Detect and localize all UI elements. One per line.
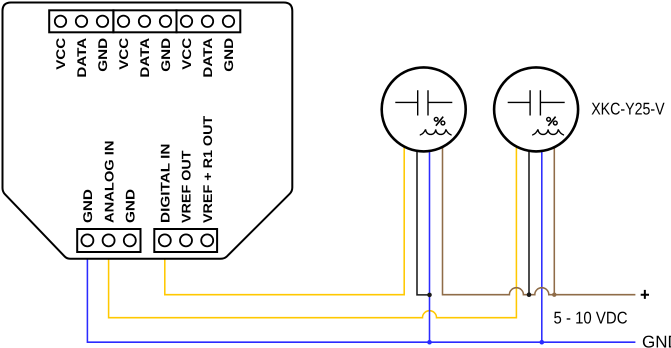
sensor S1 liquid level wave xyxy=(420,129,451,135)
pin 2 DATA xyxy=(76,16,87,27)
connector J1 group 1 box xyxy=(49,10,113,32)
svg-text:GND: GND xyxy=(642,332,671,348)
pin 1 VCC xyxy=(55,16,66,27)
label + (supply plus terminal) xyxy=(641,290,649,299)
sensor S2 liquid level wave xyxy=(533,129,564,135)
svg-text:VCC: VCC xyxy=(54,38,68,70)
module U1 body outline xyxy=(3,3,293,259)
wire: right sensor black mode lead down to + bus xyxy=(528,120,530,295)
svg-text:VCC: VCC xyxy=(117,38,131,70)
pin VREF + R1 OUT (J3-3) xyxy=(201,234,213,246)
sensor S2 (right XKC-Y25-V) body circle xyxy=(494,67,578,151)
svg-text:ANALOG IN: ANALOG IN xyxy=(102,141,116,224)
sensor S1 (left XKC-Y25-V) body circle xyxy=(382,67,466,151)
svg-text:DIGITAL IN: DIGITAL IN xyxy=(159,144,173,224)
pin ANALOG IN (J2-2) xyxy=(103,234,115,246)
junction: left blue wire on GND bus xyxy=(427,340,432,345)
svg-text:VCC: VCC xyxy=(180,38,194,70)
pin VREF OUT (J3-2) xyxy=(180,234,192,246)
wire: brown + supply bus from left sensor VCC lead (hops over yellow and blue wires) xyxy=(443,120,636,295)
svg-text:5 - 10 VDC: 5 - 10 VDC xyxy=(554,309,628,328)
pin 3 GND xyxy=(97,16,108,27)
svg-text:DATA: DATA xyxy=(138,38,152,78)
svg-text:DATA: DATA xyxy=(201,38,215,78)
svg-text:GND: GND xyxy=(222,38,236,72)
pin GND (J2-3) xyxy=(124,234,136,246)
connector J1 group 2 box xyxy=(113,10,176,32)
wire: right sensor blue GND lead down to GND bus xyxy=(541,120,543,342)
svg-text:VREF + R1 OUT: VREF + R1 OUT xyxy=(201,115,215,223)
svg-text:GND: GND xyxy=(81,189,95,223)
pin 5 DATA xyxy=(139,16,150,27)
pin GND (J2-1) xyxy=(81,234,93,246)
junction: right blue wire on GND bus xyxy=(540,340,545,345)
svg-text:GND: GND xyxy=(96,38,110,72)
svg-text:GND: GND xyxy=(124,189,138,223)
pin 4 VCC xyxy=(118,16,129,27)
wire: left sensor blue GND lead down to GND bus xyxy=(429,120,431,342)
svg-text:GND: GND xyxy=(159,38,173,72)
sensor S1 capacitor symbol xyxy=(395,90,452,115)
wire: left sensor black mode lead down to GND junction xyxy=(417,120,430,295)
pin 9 GND xyxy=(223,16,234,27)
wire: blue GND bus from module GND pin xyxy=(87,258,635,342)
connector J1 group 3 box xyxy=(177,10,241,32)
svg-text:DATA: DATA xyxy=(75,38,89,78)
connector J2 box (GND / ANALOG IN / GND) xyxy=(77,229,140,252)
pin 6 GND xyxy=(160,16,171,27)
svg-text:VREF OUT: VREF OUT xyxy=(180,150,194,223)
sensor S2 percent symbol xyxy=(547,117,558,126)
pin DIGITAL IN (J3-1) xyxy=(159,234,171,246)
wire: yellow signal, DIGITAL IN pin to left sensor yellow lead xyxy=(165,120,404,295)
wire: yellow signal, ANALOG IN pin to right sensor yellow lead (hop over blue wire) xyxy=(109,120,517,318)
sensor S2 capacitor symbol xyxy=(508,90,565,115)
pin 8 DATA xyxy=(202,16,213,27)
connector J3 box (DIGITAL IN / VREF OUT / VREF + R1 OUT) xyxy=(154,229,217,252)
junction: right sensor black lead on + bus xyxy=(527,292,532,297)
svg-text:XKC-Y25-V: XKC-Y25-V xyxy=(591,99,665,118)
pin 7 VCC xyxy=(181,16,192,27)
sensor S1 percent symbol xyxy=(434,117,444,126)
wire: right sensor brown VCC lead down to + bus xyxy=(553,120,555,295)
junction: right sensor brown lead on + bus xyxy=(552,293,556,297)
junction: left sensor black lead to blue GND wire xyxy=(427,293,432,298)
